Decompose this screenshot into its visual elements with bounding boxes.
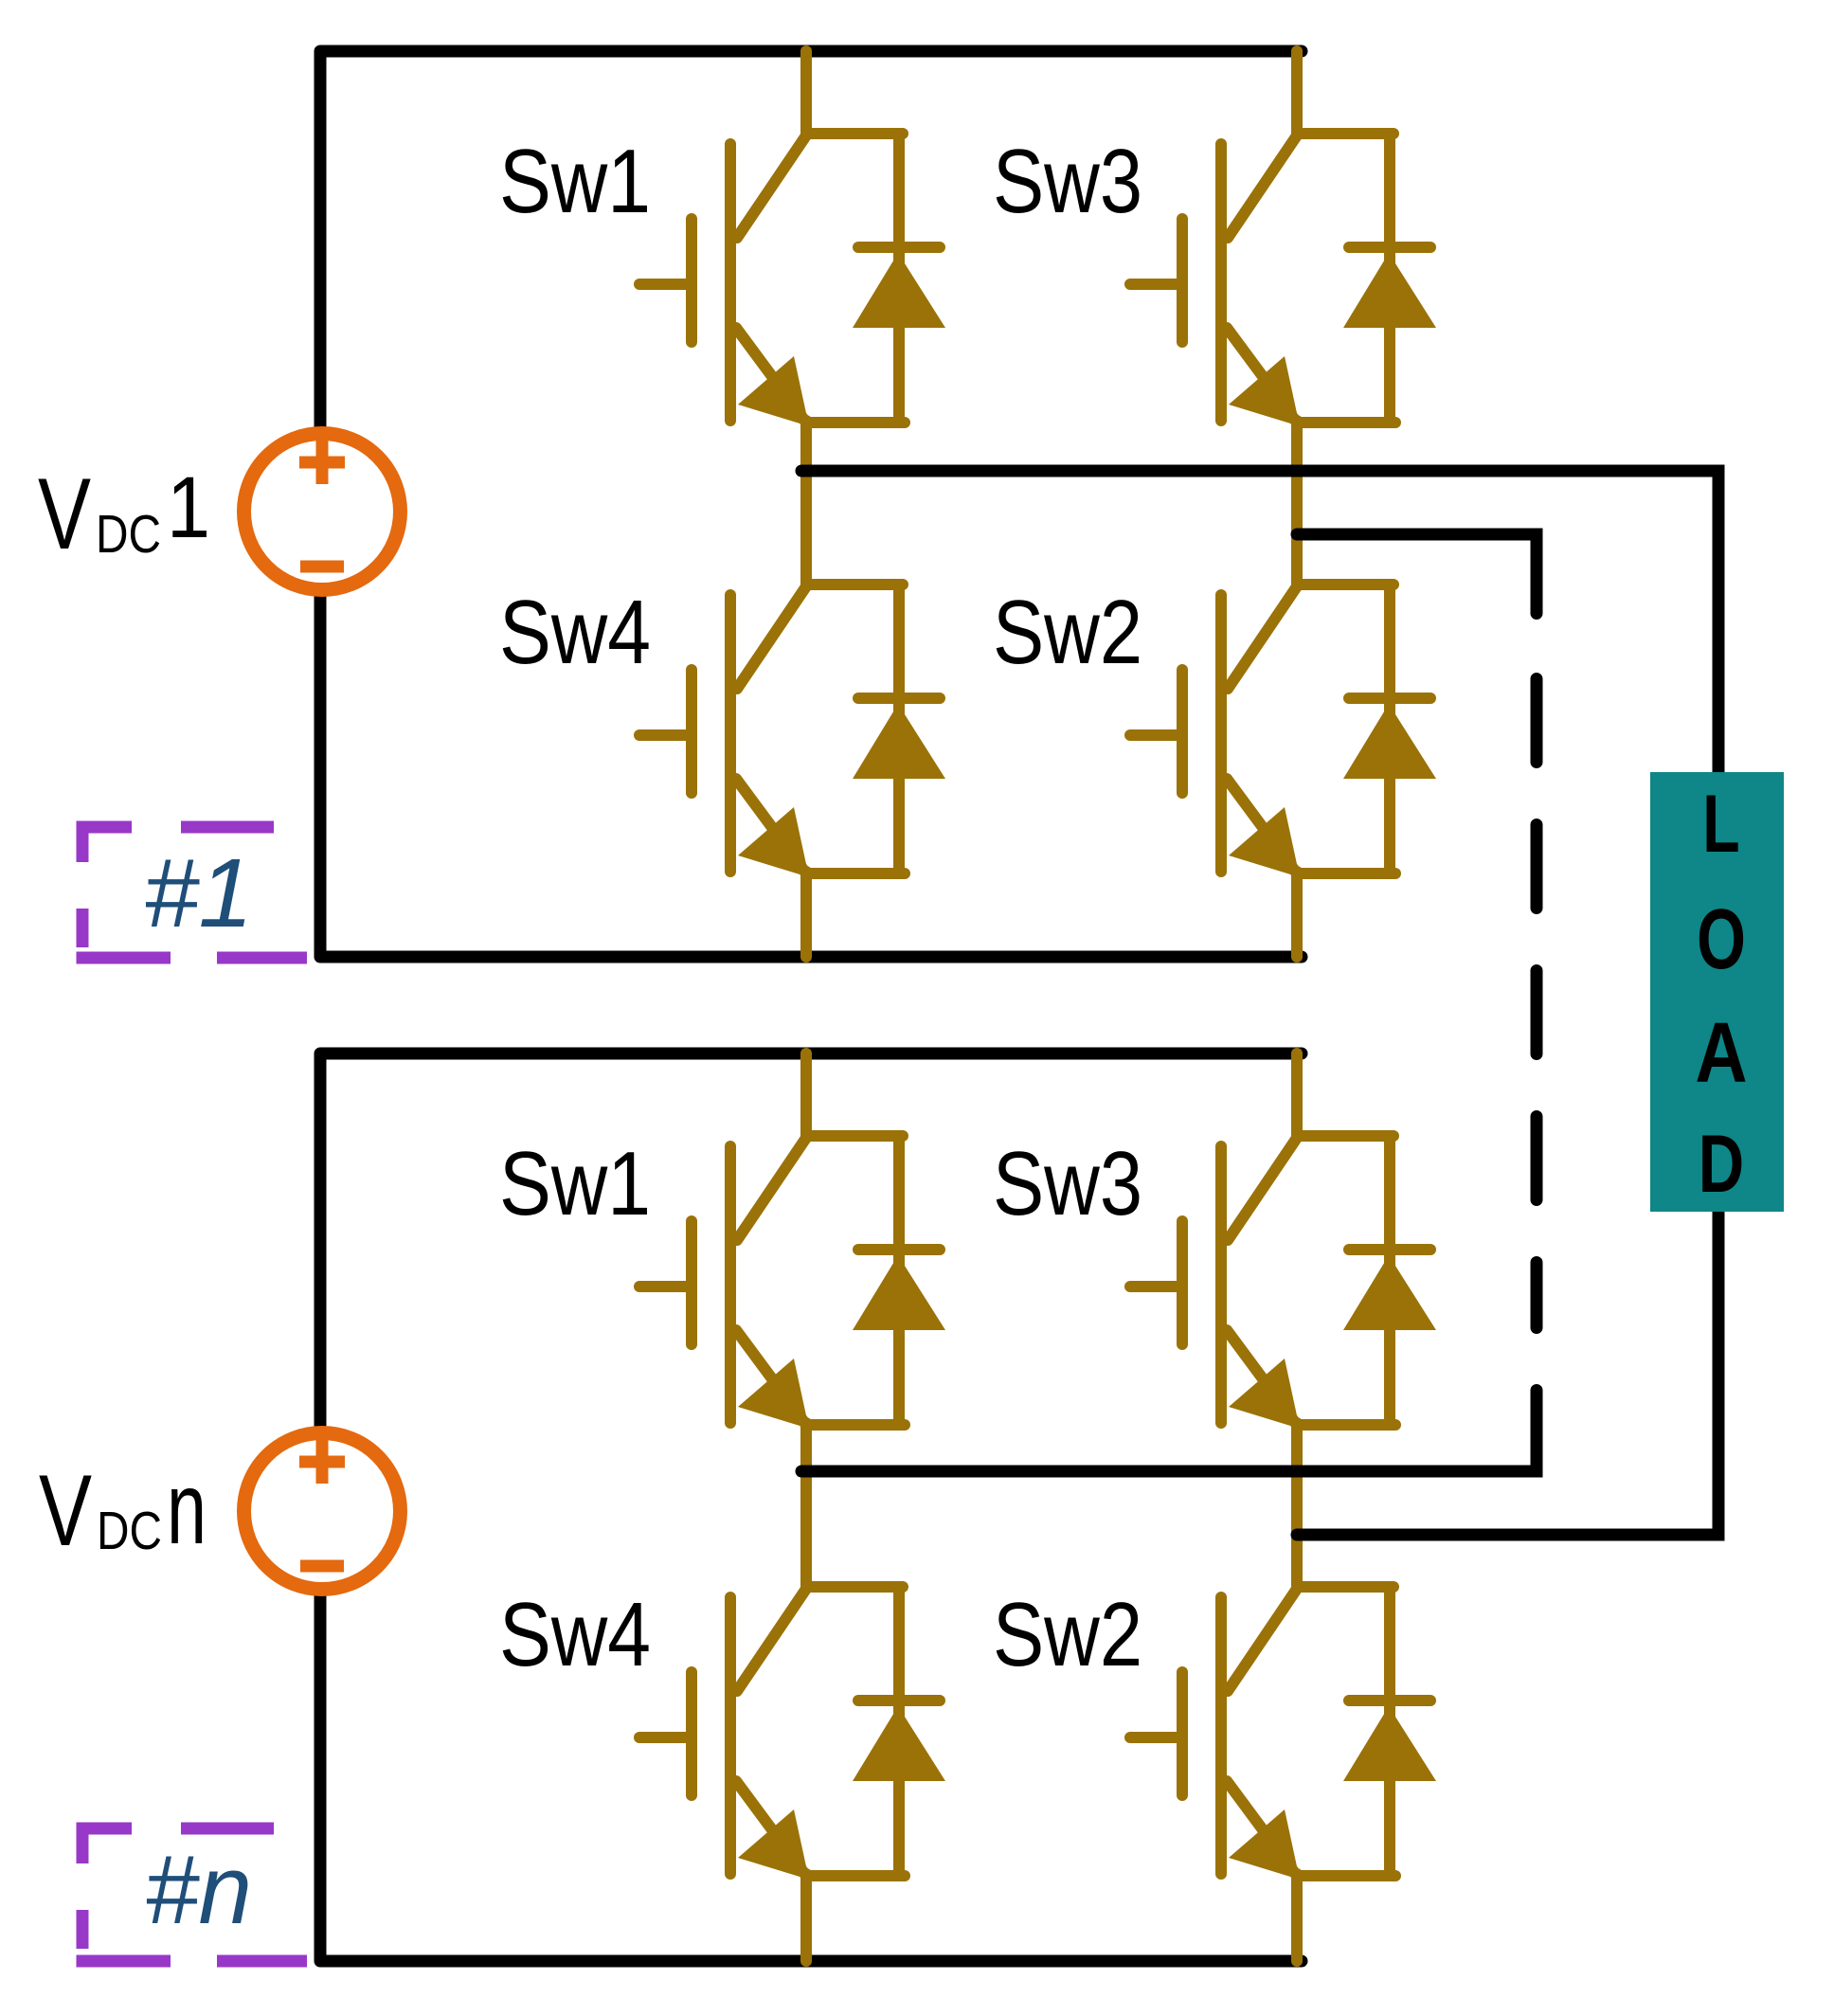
svg-text:A: A <box>1695 1004 1747 1100</box>
wire: celln left leg verticals <box>800 1053 812 1961</box>
wire: cell1 left wire below source + bottom bus <box>320 595 1302 957</box>
wire: celln right leg verticals <box>1291 1053 1303 1961</box>
svg-text:D: D <box>1699 1119 1744 1210</box>
svg-text:#1: #1 <box>144 838 253 947</box>
svg-text:Sw3: Sw3 <box>993 131 1142 232</box>
wire: cell1 top bus + left drop to source <box>320 51 1302 428</box>
svg-text:Sw1: Sw1 <box>499 1133 651 1234</box>
cell boundary box #1 <box>77 821 308 959</box>
svg-text:V: V <box>38 457 91 570</box>
transistor Sw1 cell1 <box>639 134 945 426</box>
transistor Sw4 celln <box>639 1587 945 1880</box>
svg-text:Sw2: Sw2 <box>993 582 1142 683</box>
voltage source VDC1 <box>244 434 401 590</box>
transistor Sw2 cell1 <box>1130 585 1436 877</box>
svg-text:Sw1: Sw1 <box>499 131 651 232</box>
wire: dashed series link <box>1531 679 1543 1328</box>
transistor Sw2 celln <box>1130 1587 1436 1880</box>
voltage source VDCn <box>244 1433 401 1590</box>
svg-text:O: O <box>1697 891 1746 986</box>
transistor Sw1 celln <box>639 1136 945 1429</box>
svg-text:L: L <box>1702 779 1739 870</box>
wire: celln output B to load bottom <box>1297 1209 1718 1535</box>
svg-text:#n: #n <box>145 1835 252 1944</box>
cell boundary box #n <box>77 1823 308 1962</box>
label LOAD letters <box>1695 779 1747 1210</box>
wire: cell1 output B to series link <box>1297 534 1537 614</box>
label VDCn <box>39 1450 207 1567</box>
wire: cell1 left leg verticals <box>800 51 812 957</box>
svg-text:Sw2: Sw2 <box>993 1584 1142 1685</box>
LOAD block <box>1650 772 1784 1212</box>
wire: cell1 right leg verticals <box>1291 51 1303 957</box>
svg-text:n: n <box>167 1450 207 1565</box>
svg-text:Sw4: Sw4 <box>499 1584 651 1685</box>
svg-text:DC: DC <box>96 504 161 565</box>
wire: cell1 output A to load top <box>801 471 1718 775</box>
wire: celln top bus + left drop to source <box>320 1053 1302 1427</box>
wire: celln left wire below source + bottom bus <box>320 1595 1302 1961</box>
wire: celln output A from series link <box>801 1391 1537 1472</box>
label VDC1 <box>38 457 210 570</box>
transistor Sw4 cell1 <box>639 585 945 877</box>
svg-text:1: 1 <box>167 459 210 556</box>
svg-text:Sw4: Sw4 <box>499 582 651 683</box>
transistor Sw3 celln <box>1130 1136 1436 1429</box>
svg-text:V: V <box>39 1453 92 1567</box>
svg-text:Sw3: Sw3 <box>993 1133 1142 1234</box>
svg-text:DC: DC <box>97 1501 162 1561</box>
transistor Sw3 cell1 <box>1130 134 1436 426</box>
